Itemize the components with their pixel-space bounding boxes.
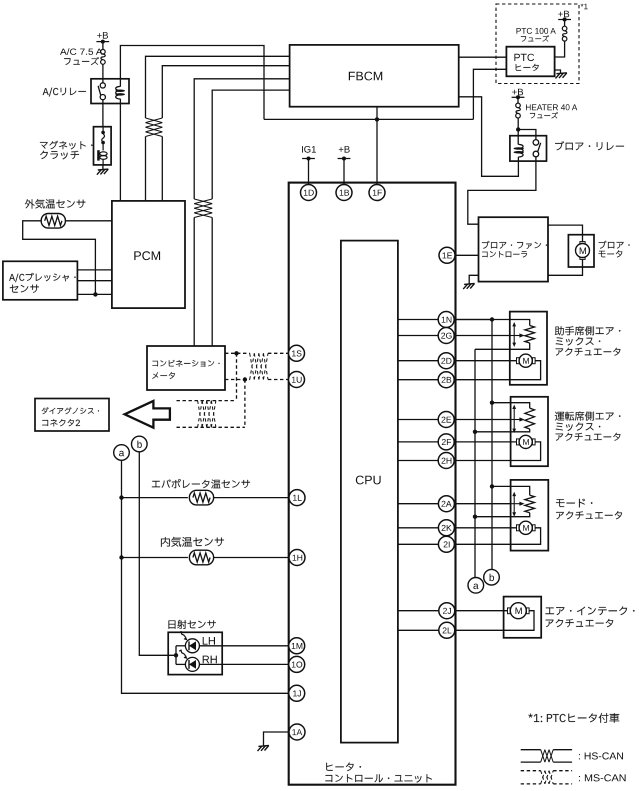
label コントロール・ユニット xyxy=(325,774,432,782)
wiper travel arrow (driver air mix U3) xyxy=(513,408,515,430)
blower fan controller box xyxy=(479,217,549,281)
node junction FBCM/1F xyxy=(375,117,379,121)
wire heater fuse to blower relay xyxy=(517,118,519,145)
pin 1L xyxy=(289,490,305,506)
pin 2J xyxy=(439,603,455,619)
node junction a/inside xyxy=(119,555,123,559)
label +B (heater fuse) xyxy=(512,89,523,96)
PTC heater box xyxy=(506,47,554,77)
blower motor box xyxy=(568,235,594,267)
label エバポレータ温センサ xyxy=(152,479,250,488)
potentiometer resistor (mode actuator U4) xyxy=(525,495,535,513)
wire CPU to 2J xyxy=(398,610,454,612)
wire 1A to ground xyxy=(264,732,291,746)
twist crossing (pair2) xyxy=(194,199,212,204)
wire inside air temp sensor left xyxy=(122,557,188,559)
wire pot bottom (passenger air mix U2) xyxy=(475,343,530,349)
label ブロア・ファン・ xyxy=(482,241,547,249)
label モータ xyxy=(598,250,622,257)
label IG1 xyxy=(302,146,316,153)
label アクチュエータ xyxy=(556,348,621,356)
wire motor return loop (passenger air mix U2) xyxy=(454,361,540,380)
wire 1E to blower fan controller xyxy=(447,254,479,256)
wire evaporator temp sensor left xyxy=(122,497,188,499)
label フューズ xyxy=(530,112,558,118)
wire PTC heater pin2 to 1F net xyxy=(473,69,506,119)
pin 1J xyxy=(289,685,305,701)
pin 1B xyxy=(336,185,352,201)
legend HS-CAN symbol xyxy=(521,749,541,751)
bus line B (pot return) xyxy=(474,349,476,578)
ground (heater control unit) xyxy=(258,746,269,752)
label アクチュエータ xyxy=(546,619,614,627)
label +B (A/C fuse) xyxy=(97,32,108,39)
magnet clutch coil loops xyxy=(100,152,107,160)
wire a to sensor common / 1J xyxy=(122,460,291,693)
node a (left) xyxy=(114,445,130,461)
wire +B to fuse xyxy=(102,42,104,50)
label コンビネーション・ xyxy=(152,360,219,367)
label 日射センサ xyxy=(168,620,215,629)
wire RH to 1O xyxy=(199,663,290,665)
node a (right) xyxy=(468,578,484,594)
arrow to diagnosis connector xyxy=(125,401,170,428)
wire motor feed (driver air mix U3) xyxy=(454,441,516,443)
node junction a/evap xyxy=(119,495,123,499)
label 助手席側エア・ xyxy=(555,326,620,335)
label ブロア・リレー xyxy=(555,141,624,150)
blower relay switch contacts xyxy=(533,140,539,146)
label 外気温センサ xyxy=(25,199,86,209)
wire FBCM to blower relay coil xyxy=(459,97,519,177)
node junction MS-CAN 1 xyxy=(234,351,238,355)
pin 1E xyxy=(439,247,455,263)
label フューズ xyxy=(64,57,99,65)
fuse HEATER 40 A xyxy=(516,103,521,118)
wire A/C relay coil top to FBCM/1F net xyxy=(120,46,264,120)
wire clutch to ground xyxy=(102,165,104,170)
label PTC 100 A fuse xyxy=(516,28,555,34)
wire 2J to intake motor xyxy=(454,610,507,612)
wire PTC heater to ground xyxy=(555,70,561,73)
label *1: PTCヒータ付車 xyxy=(528,713,619,723)
wire FBCM bottom to 1F xyxy=(376,107,378,188)
wire b to sun sensor common xyxy=(139,452,176,656)
magnet clutch box xyxy=(94,127,112,165)
pin 2E xyxy=(438,412,454,428)
motor M (driver air mix U3) xyxy=(517,439,520,445)
label LH xyxy=(203,637,215,645)
label アクチュエータ xyxy=(556,433,621,441)
node junction line A / act3 xyxy=(490,484,494,488)
label ミックス・ xyxy=(556,337,600,346)
wire junction to relay switch contact xyxy=(518,130,536,140)
outside air temp sensor return wire xyxy=(23,221,96,295)
photodiode RH xyxy=(179,650,199,671)
label 内気温センサ xyxy=(161,537,224,547)
wire motor feed (passenger air mix U2) xyxy=(454,360,516,362)
wire CPU to 1N xyxy=(398,319,492,321)
pin 2D xyxy=(438,353,454,369)
pin 1U xyxy=(289,372,305,388)
combination meter box xyxy=(147,346,225,390)
pin 2F xyxy=(438,434,454,450)
wire CPU to 2F xyxy=(398,441,454,443)
pin 1A xyxy=(289,724,305,740)
node b (left) xyxy=(132,436,148,452)
twist crossing (pair1) xyxy=(146,118,163,123)
wiper arrowhead (driver air mix U3) xyxy=(511,419,521,421)
inside air temp sensor (thermistor) xyxy=(189,550,213,565)
power tap +B (PTC) xyxy=(558,18,571,22)
heater control unit box xyxy=(289,183,456,785)
wire fuse to A/C relay switch xyxy=(102,64,104,83)
pin 1O xyxy=(289,656,305,672)
label クラッチ xyxy=(40,151,79,160)
power tap IG1 xyxy=(302,157,315,161)
label FBCM xyxy=(349,72,382,81)
FBCM box xyxy=(290,45,459,107)
label アクチュエータ xyxy=(556,511,622,519)
pin 2B xyxy=(438,372,454,388)
wire wiper (driver air mix U3) xyxy=(454,419,510,421)
wire pot supply (driver air mix U3) xyxy=(492,403,530,408)
PTC option dashed box xyxy=(496,4,579,84)
legend label MS-CAN xyxy=(579,774,626,781)
ground (magnet clutch) xyxy=(97,169,108,175)
wire controller to blower motor + xyxy=(548,225,583,243)
pin 1N xyxy=(438,312,454,328)
diagnosis connector box xyxy=(35,399,109,432)
twist crossing (diagnosis pair) xyxy=(198,401,203,428)
node junction b/sun sensor xyxy=(174,653,178,657)
pin 1S xyxy=(289,345,305,361)
potentiometer resistor (driver air mix U3) xyxy=(525,408,535,429)
legend label HS-CAN xyxy=(579,752,623,759)
wire motor return loop (driver air mix U3) xyxy=(454,442,540,461)
label PTC xyxy=(514,54,534,61)
CPU box xyxy=(341,241,398,743)
wire +B to heater fuse xyxy=(517,97,519,103)
wire CPU to 2K xyxy=(398,527,454,529)
label ブロア・ xyxy=(599,241,630,249)
twisted pair FBCM to combination meter line 2 xyxy=(212,90,289,199)
blower relay coil xyxy=(518,144,523,157)
blower relay box xyxy=(510,136,547,161)
wire blower relay switch to blower fan controller xyxy=(468,157,536,224)
twisted pair FBCM to combination meter line 1 xyxy=(194,79,289,199)
twisted pair HS-CAN PCM to FBCM line 1 xyxy=(146,56,290,118)
node junction line A / 1N xyxy=(490,317,494,321)
wire PTC fuse to PTC heater xyxy=(555,41,565,57)
dashed wire combination meter to 1S xyxy=(225,352,250,354)
magnet clutch slip contact squiggle xyxy=(102,134,105,142)
wire inside air temp sensor to 1H xyxy=(213,557,290,559)
wire blower motor - to controller xyxy=(548,258,583,276)
blower motor M xyxy=(580,242,585,245)
label +B (PTC) xyxy=(558,11,569,18)
label モード・ xyxy=(556,499,592,508)
wire intake motor return to 2L xyxy=(454,611,534,631)
wiper arrowhead (mode actuator U4) xyxy=(511,503,521,505)
actuator box (passenger air mix U2) xyxy=(510,312,547,385)
power tap +B (1B) xyxy=(338,157,351,161)
label CPU xyxy=(356,476,381,485)
wire pot bottom (mode actuator U4) xyxy=(475,513,530,517)
pin 2L xyxy=(439,622,455,638)
bus line A (pot supply) xyxy=(491,320,493,571)
PCM box xyxy=(112,201,185,308)
dashed wire diagnosis pair line2 xyxy=(177,426,245,428)
label *1 (PTC box) xyxy=(581,4,588,10)
wire pressure sensor to PCM 3 xyxy=(77,293,112,295)
magnet clutch contact dots xyxy=(102,127,104,131)
power tap +B (heater fuse) xyxy=(512,95,525,99)
node junction line A / act2 xyxy=(490,401,494,405)
wire +B to 1B xyxy=(343,159,345,189)
motor M (mode actuator U4) xyxy=(517,525,520,531)
pin 2A xyxy=(438,496,454,512)
wire CPU to 2A xyxy=(398,503,454,505)
pin 1H xyxy=(289,550,305,566)
node junction line B / act3 xyxy=(473,515,477,519)
fuse PTC 100 A xyxy=(562,26,567,41)
label A/Cリレー xyxy=(43,88,86,97)
label PCM xyxy=(134,251,160,260)
pin 2K xyxy=(438,520,454,536)
label ヒータ・ xyxy=(326,763,361,772)
wiper travel arrow (mode actuator U4) xyxy=(513,495,515,514)
label エア・インテーク・ xyxy=(545,606,634,615)
wire CPU to 2G xyxy=(398,335,454,337)
legend MS-CAN symbol xyxy=(521,770,541,772)
dashed wire junction2 to diagnosis pair xyxy=(244,380,246,428)
wire pot supply (mode actuator U4) xyxy=(492,486,530,495)
intake actuator box xyxy=(504,597,542,638)
label RH xyxy=(203,656,217,664)
ground (blower fan controller) xyxy=(463,284,474,290)
wire controller to ground xyxy=(469,275,478,284)
sun sensor box xyxy=(168,632,222,674)
twist crossing (MS-CAN to unit) xyxy=(250,353,255,379)
wire A/C relay coil bottom to PCM xyxy=(119,99,121,201)
magnet clutch coil core xyxy=(102,144,104,150)
dashed wire combination meter to 1U xyxy=(225,379,250,381)
label コネクタ2 xyxy=(42,419,80,426)
wire CPU to 2L xyxy=(398,629,454,631)
wire +B to PTC fuse xyxy=(564,20,566,27)
wire pot supply (passenger air mix U2) xyxy=(454,320,530,326)
outside air temp sensor (thermistor) xyxy=(41,214,65,229)
blower relay switch blade xyxy=(538,143,541,152)
wire A/C relay switch to magnet clutch xyxy=(102,100,104,127)
label フューズ xyxy=(521,35,549,41)
wire wiper (mode actuator U4) xyxy=(454,503,510,505)
dashed wire junction1 to diagnosis pair xyxy=(236,353,238,400)
label センサ xyxy=(10,284,39,292)
wire evaporator temp sensor to 1L xyxy=(213,497,290,499)
label A/C 7.5 A fuse xyxy=(60,48,102,55)
potentiometer resistor (passenger air mix U2) xyxy=(525,326,535,344)
wire LH to 1M xyxy=(199,645,290,647)
wire FBCM to PTC heater pin1 xyxy=(459,56,507,58)
node b (right) xyxy=(484,569,500,585)
label 運転席側エア・ xyxy=(555,411,620,420)
twisted pair HS-CAN PCM to FBCM line 2 xyxy=(162,66,289,118)
actuator box (driver air mix U3) xyxy=(511,397,548,466)
actuator box (mode actuator U4) xyxy=(511,480,549,551)
pin 1M xyxy=(289,638,305,654)
label コントローラ xyxy=(482,251,527,257)
wire CPU to 2H xyxy=(398,460,454,462)
node junction MS-CAN 2 xyxy=(243,377,247,381)
sun sensor common bus xyxy=(175,646,177,665)
label A/Cプレッシャ・ xyxy=(9,273,75,282)
motor M (passenger air mix U2) xyxy=(517,358,520,364)
pin 2H xyxy=(438,453,454,469)
pin 1D xyxy=(301,185,317,201)
evaporator temp sensor (thermistor) xyxy=(189,490,213,505)
node junction heater fuse / relay switch xyxy=(516,127,520,131)
label +B (1B) xyxy=(339,146,350,153)
A/C relay coil xyxy=(116,86,121,99)
pin 2I xyxy=(438,536,454,552)
motor M (intake U5) xyxy=(508,608,511,614)
wire CPU to 2B xyxy=(398,379,454,381)
wire CPU to 2I xyxy=(398,543,454,545)
wire motor return loop (mode actuator U4) xyxy=(454,528,540,545)
wire CPU to 2D xyxy=(398,360,454,362)
outside air temp sensor wire to PCM xyxy=(66,220,112,222)
pin 2G xyxy=(438,328,454,344)
wire CPU to 2E xyxy=(398,419,454,421)
label マグネット・ xyxy=(40,141,93,150)
node junction sensor ground xyxy=(93,292,97,296)
wire motor feed (mode actuator U4) xyxy=(454,527,516,529)
wire pressure sensor to PCM 1 xyxy=(77,269,112,271)
wire pressure sensor to PCM 2 xyxy=(77,280,112,282)
label HEATER 40 A fuse xyxy=(526,104,577,110)
ground (PTC heater) xyxy=(556,73,567,79)
dashed wire diagnosis pair line1 xyxy=(177,400,237,402)
A/C pressure sensor box xyxy=(3,261,78,300)
wire IG1 to 1D xyxy=(308,159,310,189)
A/C relay box xyxy=(91,79,129,104)
power tap +B (A/C fuse) xyxy=(96,40,109,44)
A/C relay switch contacts xyxy=(100,83,105,88)
A/C relay switch blade xyxy=(98,86,101,96)
wire 1F net horizontal xyxy=(264,118,473,120)
photodiode LH xyxy=(179,632,199,653)
label メータ xyxy=(152,372,175,379)
wiper travel arrow (passenger air mix U2) xyxy=(513,325,515,344)
pin 1F xyxy=(369,185,385,201)
wire wiper (passenger air mix U2) xyxy=(454,335,510,337)
node junction line B / act2 xyxy=(473,430,477,434)
fuse A/C 7.5 A xyxy=(101,49,106,64)
wiper arrowhead (passenger air mix U2) xyxy=(511,335,521,337)
label ヒータ xyxy=(516,64,539,71)
wire pot bottom (driver air mix U3) xyxy=(475,429,530,432)
label ミックス・ xyxy=(556,422,600,431)
label ダイアグノシス・ xyxy=(42,407,99,414)
